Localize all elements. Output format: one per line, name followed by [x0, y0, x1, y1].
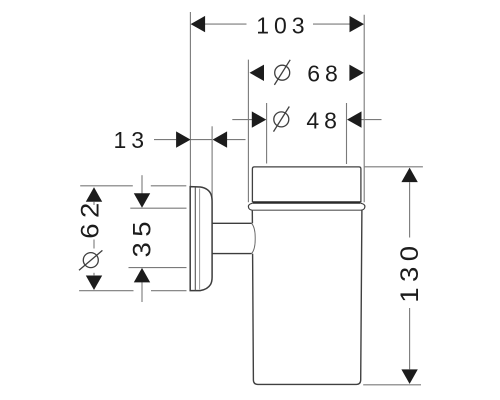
dimension 13 right leader — [227, 139, 246, 141]
dimension 62 line segments — [93, 202, 95, 205]
dimension 62 bottom arrow (pointing down) — [86, 276, 102, 291]
dimension 130 top arrow (pointing up) — [401, 168, 417, 183]
dimension 62 top arrow (pointing up) — [86, 187, 102, 202]
diameter symbol for 68 — [274, 60, 290, 85]
svg-text:130: 130 — [395, 240, 424, 302]
wall extension line (left, x=190) — [189, 12, 191, 186]
dimension 103 line segments — [205, 23, 247, 25]
cup bulge ring right — [361, 203, 365, 210]
dimension 48 leader right — [362, 119, 382, 121]
dimension 13 left arrow (pointing right) — [176, 131, 191, 147]
cup bulge ring left — [248, 203, 252, 210]
dimension 35 vertical line bottom — [141, 282, 143, 302]
svg-text:48: 48 — [306, 107, 342, 133]
dimension 35 top arrow (pointing down) — [134, 193, 150, 208]
dimension 13 right arrow (pointing left) — [213, 131, 228, 147]
dimension 35 bottom arrow (pointing up) — [134, 268, 150, 283]
cup bulge lower line — [252, 209, 361, 211]
arm bottom edge — [213, 253, 252, 255]
arm tip arc at cup — [252, 223, 256, 253]
dimension 68 right arrow — [349, 65, 364, 81]
svg-text:62: 62 — [76, 197, 105, 239]
dimension 48 left arrow (pointing right) — [252, 111, 266, 127]
wall plate flange line 1 — [194, 187, 196, 290]
dimension 103 left arrow — [191, 16, 206, 32]
svg-text:35: 35 — [128, 216, 157, 258]
extension line x=212 (13 right) — [211, 126, 213, 200]
dimension 48 leader left — [232, 119, 252, 121]
diameter symbol for 48 — [274, 107, 290, 132]
dimension 35 bottom boundary line — [129, 267, 187, 269]
dimension 130 top tick — [365, 166, 423, 168]
wall plate flange line 2 — [199, 189, 201, 290]
dimension 13 line between extensions — [190, 139, 212, 141]
dimension 103 right arrow — [350, 16, 365, 32]
dimension 62 top tick — [80, 185, 133, 187]
dimension 68 left arrow — [250, 65, 265, 81]
dimension 35 vertical line top — [141, 175, 143, 196]
extension line x=364.2 (103/68 right) — [363, 15, 365, 203]
extension line x=346.5 (48 right) — [346, 103, 348, 164]
svg-text:103: 103 — [256, 13, 309, 39]
dimension 35 top boundary line — [130, 207, 186, 209]
extension line x=266.6 (48 left) — [266, 103, 268, 164]
dimension 48 right arrow (pointing left) — [347, 111, 362, 127]
diameter symbol for 62 (rotated) — [79, 250, 102, 270]
cup body — [253, 210, 362, 384]
dimension 130 bottom arrow (pointing down) — [401, 369, 417, 384]
cup body left edge upper segment — [251, 210, 253, 223]
arm top edge — [213, 222, 252, 224]
dimension 62 bottom tick — [79, 290, 133, 292]
svg-text:68: 68 — [307, 60, 343, 86]
cup rim band — [252, 167, 361, 203]
dimension 13 leader from text — [154, 139, 176, 141]
extension line x=248.4 (68 left) — [247, 60, 249, 203]
svg-text:13: 13 — [114, 127, 150, 153]
wall plate outline — [190, 187, 212, 291]
dimension 130 bottom tick — [363, 384, 421, 386]
dimension 130 line segments — [409, 182, 411, 237]
cup rim bottom thick line — [253, 201, 361, 204]
